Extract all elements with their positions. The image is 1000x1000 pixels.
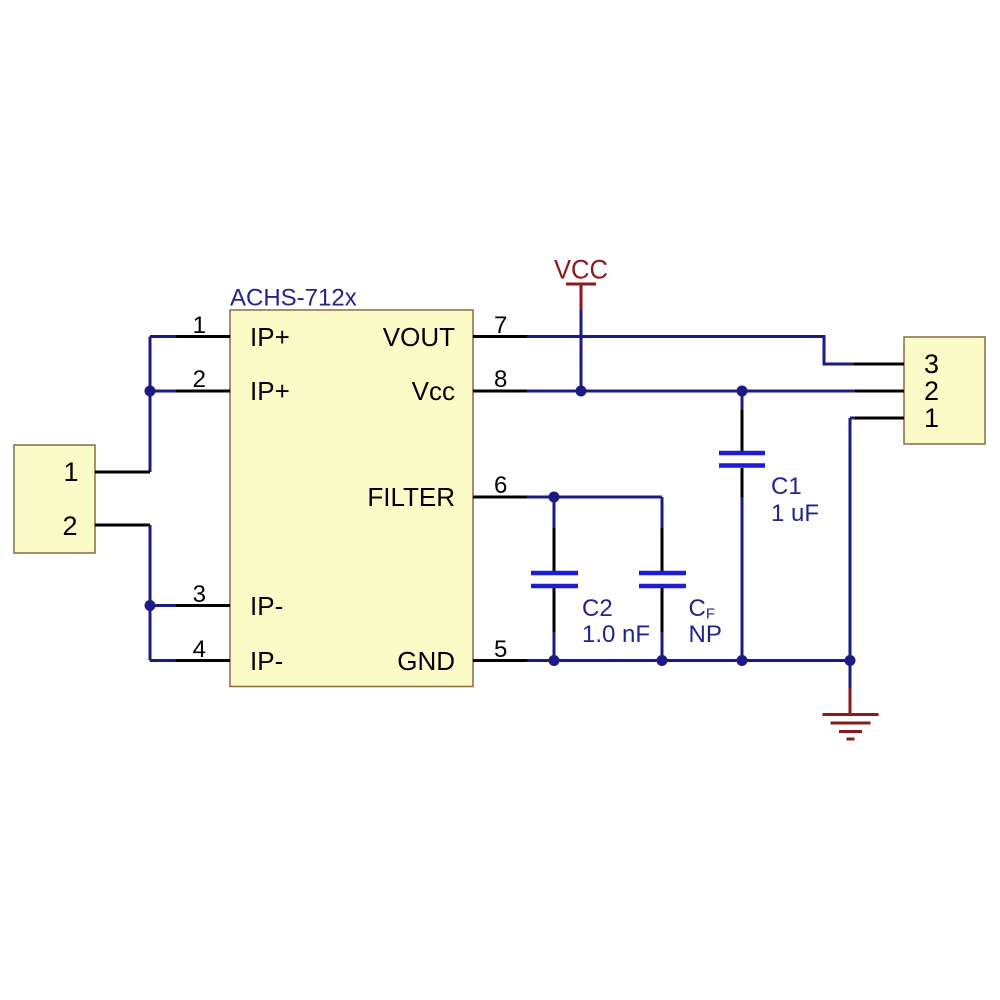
svg-text:C1: C1 xyxy=(771,473,802,500)
svg-text:8: 8 xyxy=(494,366,507,393)
svg-text:1: 1 xyxy=(924,403,939,433)
svg-text:1: 1 xyxy=(193,312,206,339)
svg-text:5: 5 xyxy=(494,636,507,663)
svg-text:1: 1 xyxy=(64,457,79,487)
svg-text:7: 7 xyxy=(494,312,507,339)
svg-text:3: 3 xyxy=(924,349,939,379)
svg-text:GND: GND xyxy=(397,646,455,676)
svg-text:IP+: IP+ xyxy=(250,376,290,406)
svg-text:2: 2 xyxy=(924,376,939,406)
svg-text:VOUT: VOUT xyxy=(383,322,455,352)
svg-text:C2: C2 xyxy=(582,595,613,622)
svg-text:VCC: VCC xyxy=(554,255,608,285)
svg-text:ACHS-712x: ACHS-712x xyxy=(230,285,357,312)
svg-text:1.0 nF: 1.0 nF xyxy=(582,621,650,648)
svg-text:2: 2 xyxy=(193,366,206,393)
svg-text:3: 3 xyxy=(193,581,206,608)
svg-text:NP: NP xyxy=(689,621,722,648)
svg-text:FILTER: FILTER xyxy=(367,482,455,512)
svg-text:6: 6 xyxy=(494,472,507,499)
svg-text:2: 2 xyxy=(63,511,78,541)
svg-text:1 uF: 1 uF xyxy=(771,500,819,527)
svg-text:IP-: IP- xyxy=(250,591,283,621)
svg-text:4: 4 xyxy=(193,636,206,663)
svg-text:IP-: IP- xyxy=(250,646,283,676)
svg-text:IP+: IP+ xyxy=(250,322,290,352)
svg-text:Vcc: Vcc xyxy=(412,376,455,406)
